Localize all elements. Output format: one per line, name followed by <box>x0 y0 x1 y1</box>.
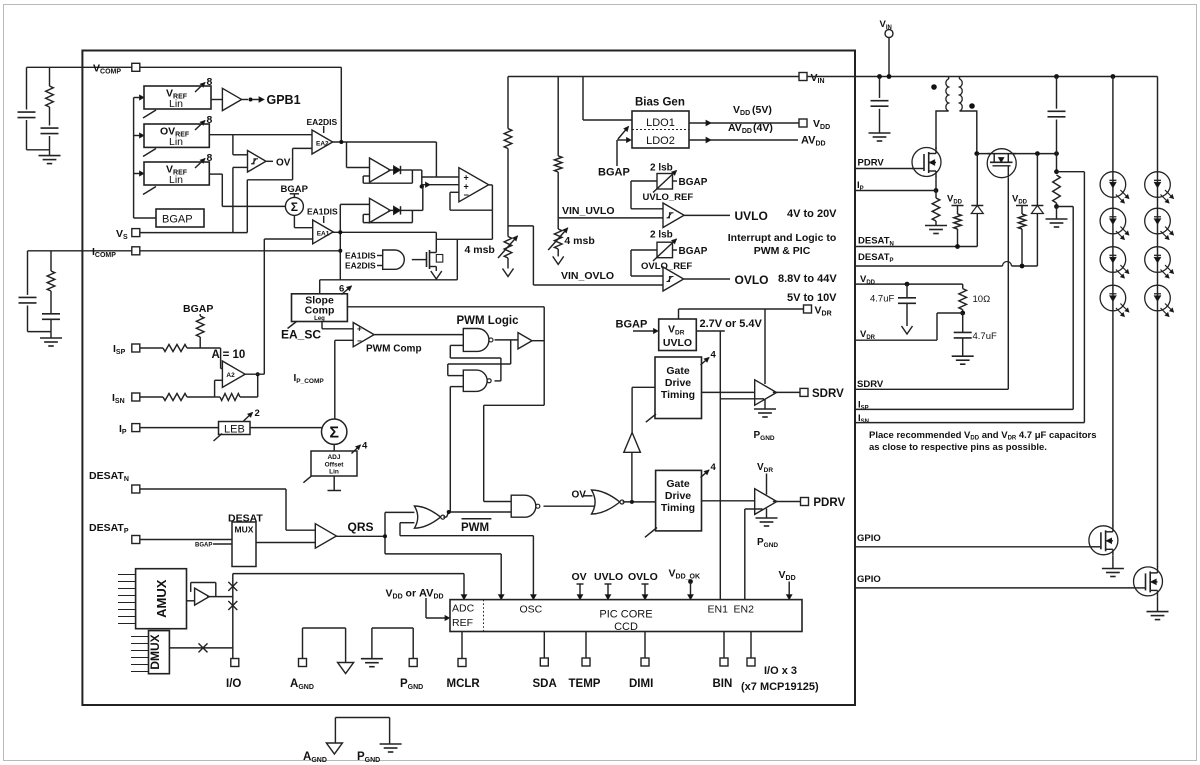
svg-text:EA1: EA1 <box>317 231 330 238</box>
bus 4 arrow GDT2 <box>701 470 710 478</box>
wire latch buffer output <box>532 340 544 342</box>
LED D3 string1 <box>1100 247 1126 273</box>
svg-text:ADJ: ADJ <box>327 454 340 461</box>
amux input stubs <box>118 574 136 576</box>
switch X lower <box>228 601 237 610</box>
ground SDRV driver <box>764 400 766 410</box>
svg-text:2.7V or 5.4V: 2.7V or 5.4V <box>700 318 763 330</box>
svg-text:Lin: Lin <box>169 136 183 148</box>
transistor EAdis FET <box>426 252 428 267</box>
wire DESATN <box>855 246 977 248</box>
svg-text:BGAP: BGAP <box>679 177 708 188</box>
svg-text:DESATP: DESATP <box>89 522 129 535</box>
wire BGAP to LDOs <box>616 140 618 166</box>
svg-text:DIMI: DIMI <box>629 678 653 690</box>
svg-text:Interrupt and Logic to: Interrupt and Logic to <box>728 232 837 244</box>
pin TEMP <box>582 658 590 666</box>
wire SDA <box>543 632 545 659</box>
svg-text:GPIO: GPIO <box>857 533 881 544</box>
wire MUX to QRS buffer <box>256 542 315 544</box>
diode D2 amp2 <box>388 209 393 211</box>
wire left branch VCOMP cap <box>26 67 28 109</box>
wire EA2 direct to rail <box>435 142 437 177</box>
wire ISN to A2 minus <box>187 396 215 398</box>
wire EA2 tap to diode amp1 <box>346 142 348 168</box>
wire PGND bracket <box>372 627 413 629</box>
adjust slash GDT1 <box>646 414 656 422</box>
svg-text:A = 10: A = 10 <box>212 349 246 361</box>
wire BGAP feed vertical <box>133 98 135 219</box>
svg-text:UVLO: UVLO <box>663 337 692 349</box>
wire diode node to summing rails <box>412 169 421 171</box>
summer sigma2 <box>322 419 347 444</box>
divider2 line <box>557 77 559 156</box>
comparator OVLO <box>663 267 684 291</box>
LED D6 string2 <box>1145 208 1171 234</box>
pin SDA <box>540 658 548 666</box>
resistor ISP <box>163 345 187 352</box>
summer sigma1 <box>285 197 303 215</box>
block DMUX <box>149 631 170 674</box>
svg-text:DESATP: DESATP <box>858 252 894 264</box>
wire power FET drain <box>935 146 937 149</box>
block VREF Lin 2 <box>144 162 209 185</box>
gate AND EAdis <box>383 250 405 269</box>
transistor power NMOS <box>912 148 941 177</box>
svg-text:OVLO: OVLO <box>735 273 769 287</box>
wire LEB to sigma2 <box>250 427 322 429</box>
svg-text:10Ω: 10Ω <box>973 294 991 305</box>
wire NAND1 out to buffer <box>495 339 519 341</box>
svg-text:EA1DIS: EA1DIS <box>307 207 338 217</box>
wire ISN <box>855 422 1084 424</box>
svg-text:as close to respective pins as: as close to respective pins as possible. <box>869 442 1047 453</box>
svg-text:GPIO: GPIO <box>857 574 881 585</box>
ground divider2 <box>553 256 564 264</box>
svg-text:4: 4 <box>711 350 717 361</box>
pin ISP <box>132 344 140 352</box>
wire IO to ADC <box>233 573 464 575</box>
wire GDT2 output <box>702 500 755 502</box>
wire QRS to PIC <box>385 553 501 555</box>
inverter up <box>624 433 641 453</box>
svg-text:LDO2: LDO2 <box>646 135 675 147</box>
wire IO vertical <box>232 574 234 659</box>
block AMUX <box>136 569 187 629</box>
pin VS <box>132 229 140 237</box>
block VREF Lin 1 <box>144 86 211 109</box>
wire amp2 diode node up <box>412 209 422 211</box>
svg-text:SDRV: SDRV <box>812 388 844 400</box>
wire IP to LEB <box>140 427 219 429</box>
bus 2 arrow LEB <box>244 413 253 422</box>
svg-text:PWM & PIC: PWM & PIC <box>754 245 811 257</box>
pin PGND <box>409 659 417 667</box>
svg-text:PDRV: PDRV <box>858 158 885 169</box>
wire tap to OV comparator plus <box>232 135 234 155</box>
dmux input stubs <box>131 636 149 638</box>
svg-text:4: 4 <box>711 462 717 473</box>
pot divider1 <box>504 237 512 259</box>
svg-text:UVLO: UVLO <box>735 209 768 223</box>
pin VIN <box>799 73 807 81</box>
ground sense resistor <box>1056 207 1058 220</box>
svg-text:2: 2 <box>255 408 260 419</box>
resistor power FET source <box>935 191 937 199</box>
svg-text:PWM: PWM <box>461 522 489 534</box>
svg-text:Gate: Gate <box>666 478 690 490</box>
wire IP sense <box>855 190 936 192</box>
comparator OV <box>248 151 266 173</box>
label BGAP ovloref <box>673 249 678 251</box>
wire VS sense <box>140 232 247 234</box>
wire QRS up to NOR <box>384 512 386 536</box>
LED D2 string1 <box>1100 208 1126 234</box>
arrow into VREF Lin 2 <box>134 173 140 175</box>
wire slope comp output rail <box>347 306 544 308</box>
svg-text:DESATN: DESATN <box>858 236 894 248</box>
wire power FET source <box>935 177 937 191</box>
resistor BGAP bias <box>199 314 201 316</box>
LED D7 string2 <box>1145 247 1171 273</box>
wire GPIO 2 <box>855 587 1134 589</box>
svg-text:PWM Logic: PWM Logic <box>457 315 520 327</box>
svg-text:UVLO_REF: UVLO_REF <box>643 192 694 203</box>
wire DMUX output <box>169 647 232 649</box>
capacitor ICOMP C2 <box>42 313 60 315</box>
diode clamp 1 <box>976 154 978 206</box>
svg-text:BGAP: BGAP <box>598 167 630 179</box>
transistor GPIO FET 2 <box>1134 567 1163 596</box>
diode clamp 2 <box>1036 154 1038 206</box>
wire A2 feedback up <box>240 396 258 398</box>
wire LDO1 output <box>689 122 799 124</box>
pin IOx3 <box>747 658 755 666</box>
wire ICOMP net <box>140 250 340 252</box>
capacitor output <box>1056 77 1058 109</box>
svg-text:BGAP: BGAP <box>195 543 212 549</box>
capacitor VDD 4.7uF <box>906 284 908 298</box>
label PWM bar <box>462 518 492 520</box>
capacitor input <box>879 77 881 99</box>
svg-text:(5V): (5V) <box>752 104 772 116</box>
pin DESATP <box>132 536 140 544</box>
svg-text:EN2: EN2 <box>734 604 755 616</box>
pin SDRV <box>800 388 808 396</box>
wire cross couple 2 <box>495 380 501 382</box>
pin ICOMP <box>132 247 140 255</box>
svg-text:Offset: Offset <box>325 462 345 469</box>
block Gate Drive Timing 1 <box>655 357 702 419</box>
svg-text:VIN_OVLO: VIN_OVLO <box>561 270 614 282</box>
svg-text:MCLR: MCLR <box>447 678 481 690</box>
svg-text:PWM Comp: PWM Comp <box>366 344 422 355</box>
svg-text:AMUX: AMUX <box>154 579 169 618</box>
wire SDRV gate line <box>1007 178 1009 390</box>
capacitor ICOMP C1 <box>19 296 37 298</box>
wire AGND bracket <box>302 628 304 659</box>
svg-text:5V to 10V: 5V to 10V <box>787 292 837 304</box>
wire TEMP <box>585 632 587 659</box>
phase dot primary <box>931 84 937 90</box>
svg-text:BGAP: BGAP <box>679 246 708 257</box>
wire SDRV driver output <box>773 391 800 393</box>
svg-text:Σ: Σ <box>329 425 339 442</box>
pin BIN <box>720 658 728 666</box>
wire AMUX to buffer <box>187 600 195 602</box>
wire EN2 <box>745 508 763 510</box>
svg-text:2 lsb: 2 lsb <box>650 230 673 241</box>
wire UVLO_REF loop <box>631 180 657 182</box>
wire to inverter <box>631 452 633 502</box>
wire DESATP <box>855 265 1003 267</box>
wire VS up to EA2 minus <box>246 180 248 233</box>
ground PDRV driver <box>766 509 768 519</box>
ground AGND triangle <box>338 663 354 674</box>
wire SDRV <box>855 388 1008 390</box>
wire cross couple 1 <box>510 340 512 364</box>
phase dot secondary <box>969 103 975 109</box>
buffer PWM latch <box>518 333 532 349</box>
block OVLO_REF dac <box>657 242 673 258</box>
wire VREF1 to GPB1 buffer <box>211 99 222 101</box>
ground VDD cap arrow <box>902 326 913 334</box>
resistor divider1 <box>504 129 512 149</box>
svg-text:EA_SC: EA_SC <box>281 328 321 342</box>
capacitor VDR 4.7uF <box>962 313 964 332</box>
adjust slash Slope Comp <box>288 322 297 329</box>
svg-text:PDRV: PDRV <box>813 497 845 509</box>
svg-text:EN1: EN1 <box>708 604 729 616</box>
wire A2 output to EA1 minus <box>243 373 264 375</box>
gate NAND2 <box>463 370 487 391</box>
pin MCLR <box>458 659 466 667</box>
svg-text:8: 8 <box>207 152 213 164</box>
transformer primary <box>948 77 950 80</box>
wire summing rail 2 <box>422 184 459 186</box>
svg-text:Comp: Comp <box>305 305 335 317</box>
svg-text:PIC CORE: PIC CORE <box>599 609 652 621</box>
wire NAND3 to NOR2 <box>544 505 595 507</box>
main IC block boundary <box>82 51 855 706</box>
diode D1 amp1 <box>388 169 393 171</box>
svg-text:−: − <box>464 190 469 200</box>
wire VIN rail <box>508 76 799 78</box>
wire PDRV gate <box>855 168 913 170</box>
gate NOR QRS <box>414 506 440 528</box>
wire OVLO_REF loop <box>631 249 657 251</box>
svg-text:BGAP: BGAP <box>162 214 193 226</box>
legend bracket <box>334 718 336 744</box>
wire VDR ext <box>855 339 937 341</box>
wire VDR <box>679 308 804 310</box>
LED D5 string2 <box>1145 172 1171 198</box>
svg-text:Gate: Gate <box>666 365 690 377</box>
block UVLO_REF dac <box>657 174 673 190</box>
block LEB <box>219 422 251 435</box>
wire VIN to LDO <box>582 77 584 121</box>
svg-text:MUX: MUX <box>235 525 254 535</box>
svg-text:OV: OV <box>572 490 587 501</box>
ground divider1 <box>503 269 514 277</box>
svg-text:A2: A2 <box>226 372 235 379</box>
node output cap junction <box>1054 169 1059 174</box>
resistor ISN <box>163 394 187 401</box>
svg-text:UVLO: UVLO <box>594 571 623 583</box>
wire AMUX buffer feedback <box>190 583 192 592</box>
switch X upper <box>228 582 237 591</box>
svg-text:I/O: I/O <box>226 678 241 690</box>
resistor VDD pullup 1 <box>954 214 962 229</box>
svg-text:OV: OV <box>572 571 587 583</box>
wire UVLO output <box>684 214 730 216</box>
resistor 10ohm <box>959 289 967 310</box>
wire summing rail 1 <box>422 176 459 178</box>
svg-text:CCD: CCD <box>614 621 638 633</box>
capacitor VCOMP C1 <box>18 111 36 113</box>
pin VDD <box>799 119 807 127</box>
svg-text:Timing: Timing <box>661 502 695 514</box>
block PIC CORE <box>450 600 802 632</box>
bus 4 arrow ADJ box <box>352 445 361 454</box>
wire AMUX buffer output <box>207 596 233 598</box>
wire EN1 <box>720 398 764 400</box>
wire OVLO output <box>684 278 730 280</box>
resistor A2 feedback <box>220 394 240 401</box>
pot divider2 <box>554 229 562 249</box>
wire DIMI <box>644 632 646 659</box>
switch X dmux <box>199 643 208 652</box>
wire amp2 feedback <box>411 210 413 222</box>
svg-text:EA2DIS: EA2DIS <box>307 117 338 127</box>
pin VCOMP <box>132 63 140 71</box>
wire GPIO 1 <box>855 546 1089 548</box>
wire bottom join VCOMP net <box>27 149 50 151</box>
ground GPIO FET 2 <box>1157 597 1159 612</box>
wire DESATP to MUX <box>140 539 232 541</box>
adjust slash VREF Lin 1 <box>143 110 156 118</box>
svg-text:4.7uF: 4.7uF <box>973 331 997 342</box>
terminator ADJ box bottom <box>333 476 335 491</box>
gate NAND3 <box>511 495 536 517</box>
op-amp diode buffer 2 <box>370 198 391 222</box>
svg-text:GPB1: GPB1 <box>267 93 301 107</box>
wire LED string 2 <box>1157 77 1159 568</box>
gate NOR2 OV <box>592 490 620 514</box>
svg-text:ADC: ADC <box>452 603 475 615</box>
driver SDRV <box>755 380 777 405</box>
svg-text:−: − <box>357 337 362 346</box>
svg-text:2 lsb: 2 lsb <box>650 163 673 174</box>
svg-text:(4V): (4V) <box>753 122 773 134</box>
gate NAND1 <box>463 329 489 352</box>
wire IOx3 <box>750 632 752 659</box>
svg-text:OVLO: OVLO <box>628 571 658 583</box>
op-amp A2 <box>222 361 245 387</box>
wire VDR stub PDRV driver <box>766 474 768 495</box>
svg-text:Drive: Drive <box>665 490 691 502</box>
pin VDR <box>804 305 812 313</box>
wire LED string 1 <box>1112 77 1114 527</box>
wire QRS NOR out <box>443 516 446 518</box>
svg-text:4V to 20V: 4V to 20V <box>787 208 837 220</box>
wire amp1 feedback <box>411 170 413 183</box>
op-amp QRS buffer <box>315 524 336 549</box>
wire PWM comp output <box>374 334 463 336</box>
wire ISP input <box>140 347 163 349</box>
op-amp EA1 <box>313 220 333 244</box>
svg-text:EA1DIS: EA1DIS <box>345 251 376 261</box>
wire VDR UVLO output <box>696 330 725 332</box>
block ADJ Offset Lin <box>311 451 357 476</box>
wire slope to PWM comp plus <box>321 322 323 329</box>
svg-text:BGAP: BGAP <box>183 303 213 315</box>
ground VCOMP network <box>39 155 61 157</box>
arrow into OVREF Lin <box>134 135 140 137</box>
wire VCOMP net <box>140 66 341 68</box>
wire left branch ICOMP cap <box>27 251 29 295</box>
wire right branch <box>49 67 51 86</box>
bus 8 arrow VREF Lin 2 <box>195 159 205 169</box>
svg-text:TEMP: TEMP <box>569 678 601 690</box>
wire MCLR <box>461 632 463 659</box>
svg-text:Bias Gen: Bias Gen <box>635 97 685 109</box>
svg-text:6: 6 <box>339 284 344 295</box>
block Slope Comp <box>292 294 348 322</box>
ground power FET <box>925 225 947 227</box>
wire top rail external <box>807 76 1158 78</box>
op-amp summing EA <box>459 168 489 202</box>
wire GDT1 to SDRV driver <box>702 391 755 393</box>
wire NOR2 output <box>623 501 656 503</box>
ground input cap <box>869 132 891 134</box>
svg-text:Lin: Lin <box>169 98 183 110</box>
wire EA1 out to amp2 plus <box>333 231 436 233</box>
wire VDD ext <box>855 283 963 285</box>
wire sigma2 to ADJ box <box>333 444 335 451</box>
wire NAND2 input from QRS <box>450 386 463 388</box>
wire right branch ICOMP <box>50 251 52 271</box>
wire VDR to SDRV driver <box>764 309 766 384</box>
wire PWM rail down <box>543 307 545 406</box>
block Gate Drive Timing 2 <box>656 470 702 531</box>
LED D4 string1 <box>1100 285 1126 311</box>
svg-text:Drive: Drive <box>665 377 691 389</box>
resistor ICOMP R <box>47 271 55 291</box>
wire QRS NOR feedback <box>400 522 414 524</box>
LED D1 string1 <box>1100 172 1126 198</box>
adjust slash OVREF Lin <box>143 149 156 157</box>
wire BIN <box>723 632 725 659</box>
wire divider1 tap to OVLO <box>508 225 533 227</box>
pin DESATN <box>132 485 140 493</box>
svg-text:SDRV: SDRV <box>857 379 884 390</box>
ground PGND earth <box>371 628 373 659</box>
driver PDRV <box>755 489 777 515</box>
ground VDR cap <box>952 355 974 357</box>
pin ISN <box>132 393 140 401</box>
wire QRS output <box>336 535 385 537</box>
wire ISP to A2 <box>187 347 221 349</box>
LED D8 string2 <box>1145 285 1171 311</box>
pin PDRV <box>801 498 809 506</box>
wire DESATN to QRS buffer <box>140 488 286 490</box>
wire PDRV driver output <box>773 501 800 503</box>
pin IP <box>132 424 140 432</box>
ground GPIO FET 1 <box>1112 556 1114 569</box>
svg-text:8: 8 <box>207 76 213 88</box>
svg-text:LDO1: LDO1 <box>646 117 675 129</box>
